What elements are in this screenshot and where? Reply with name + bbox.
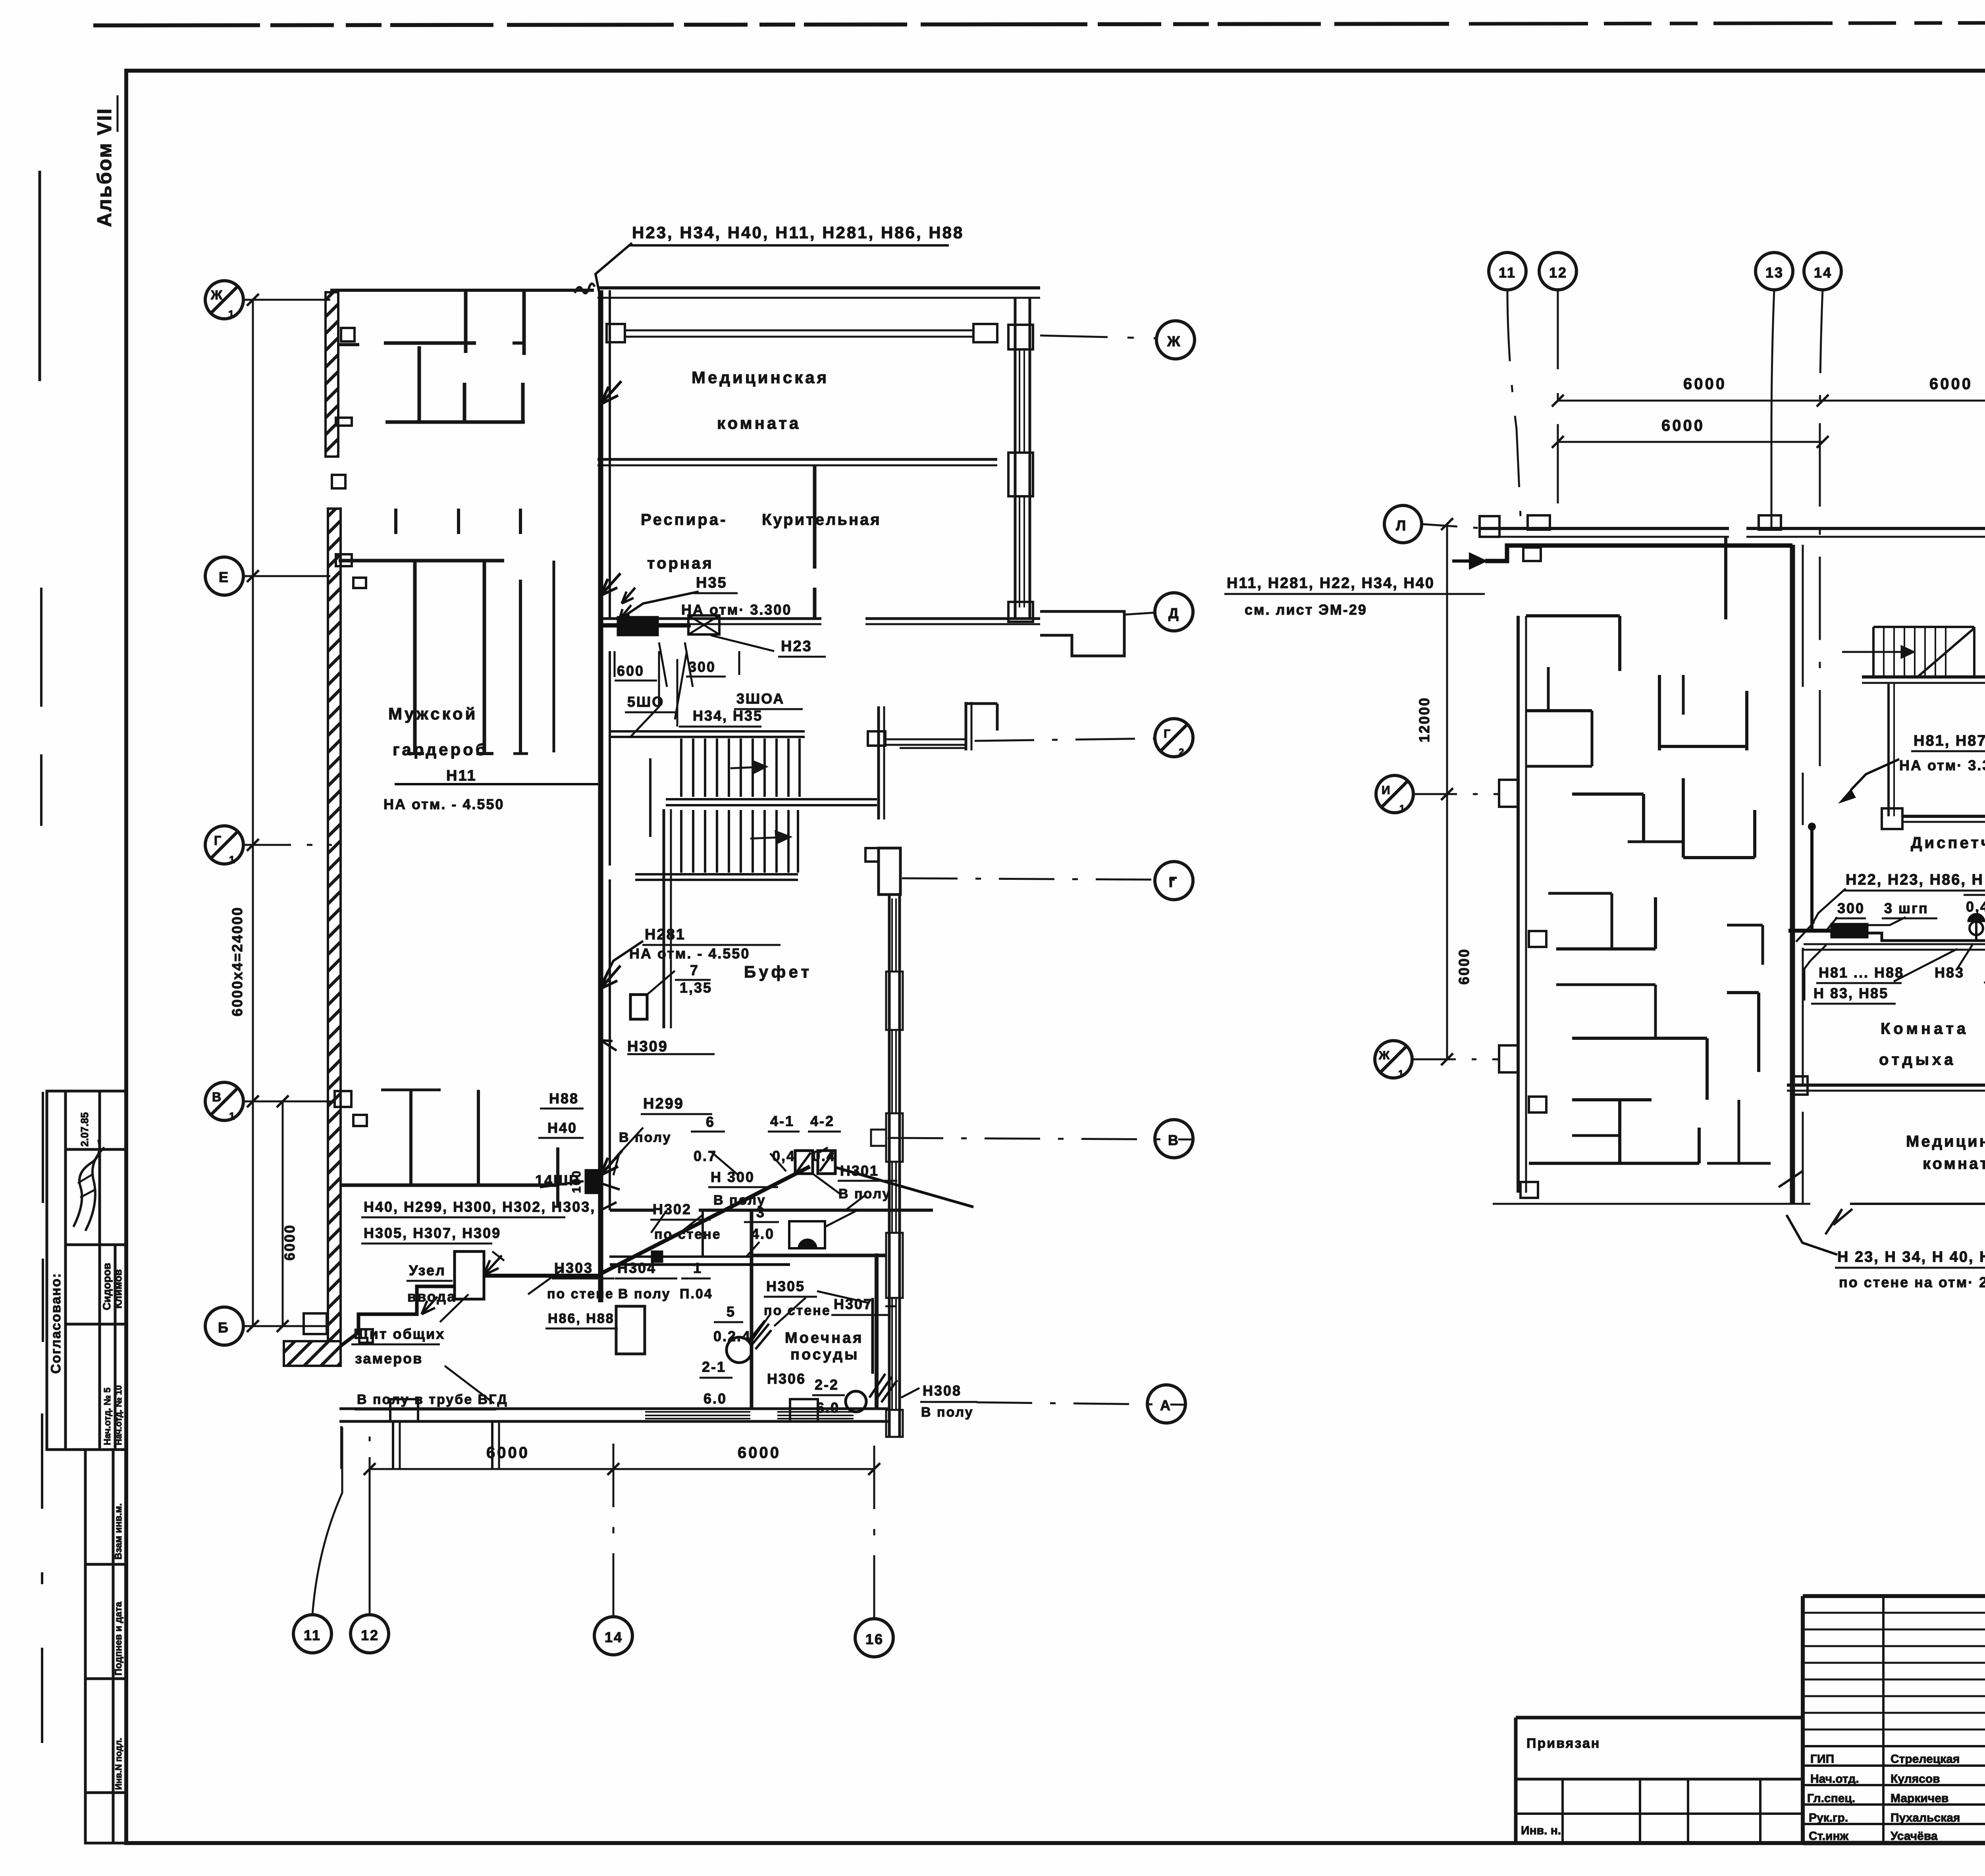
svg-text:Н 83, Н85: Н 83, Н85 [1813,985,1889,1001]
branch to shield boxes (D axis) [601,624,691,628]
left circles [1384,505,1422,543]
svg-text:Н22, Н23, Н86, Н 87, Н81: Н22, Н23, Н86, Н 87, Н81 [1846,871,1985,888]
top label leader [595,243,632,306]
svg-text:Нач.отд.: Нач.отд. [1810,1772,1859,1785]
svg-text:по стене: по стене [764,1303,831,1318]
svg-text:Н302: Н302 [653,1201,692,1217]
svg-text:0.2.4: 0.2.4 [713,1328,751,1344]
svg-text:Н35: Н35 [696,575,727,591]
svg-text:Ж: Ж [210,288,224,302]
svg-text:Стрелецкая: Стрелецкая [1891,1753,1960,1766]
svg-text:Ж: Ж [1378,1049,1391,1062]
rest room bottom wall (Zh axis) [1787,1084,1985,1087]
svg-text:Н301: Н301 [840,1163,879,1179]
bottom circles [293,1615,331,1653]
svg-text:Альбом VII: Альбом VII [93,108,116,227]
svg-text:Н281: Н281 [645,926,686,943]
svg-text:0.7: 0.7 [694,1148,717,1164]
side stamp (approval) [47,1091,126,1450]
svg-text:гардероб: гардероб [393,740,488,759]
svg-text:100: 100 [570,1170,583,1193]
svg-text:6000: 6000 [1456,948,1472,985]
wire along kitchen top wall [610,1263,790,1266]
svg-text:И: И [1382,784,1391,797]
svg-text:В полу: В полу [921,1405,974,1420]
svg-text:Н83: Н83 [1935,964,1964,981]
svg-text:Буфет: Буфет [744,962,812,981]
svg-text:0,4: 0,4 [1966,898,1985,915]
svg-text:Л: Л [1396,517,1407,534]
svg-text:Нач.отд. № 5: Нач.отд. № 5 [102,1388,112,1445]
top walls (K axis) [1480,527,1729,530]
svg-text:600: 600 [617,663,644,679]
bottom dim line [370,1468,874,1470]
mid-left partition block (B/1 area) [341,1184,558,1187]
svg-text:6000: 6000 [281,1224,298,1261]
svg-text:Б: Б [218,1319,229,1336]
right outer windowed wall of plan [879,848,900,895]
svg-text:11: 11 [1499,264,1516,281]
300 dim tick [1796,922,1814,942]
leader from label N22... to wire [1810,889,1846,927]
N35 leader [619,592,699,619]
leader N81/N87 with arrow [1851,759,1899,790]
top outer wall [330,289,594,292]
svg-text:НА отм. - 4.550: НА отм. - 4.550 [384,796,504,812]
svg-text:1: 1 [1399,803,1406,814]
svg-text:Щит общих: Щит общих [354,1326,445,1342]
svg-text:В полу в трубе ВГД: В полу в трубе ВГД [357,1392,508,1407]
small dim ticks under boxes [614,651,616,677]
left outer wall of left wing [1517,616,1520,1193]
svg-text:0,4: 0,4 [772,1148,796,1164]
svg-text:Привязан: Привязан [1526,1736,1600,1751]
left plan wires & devices [341,243,973,1412]
break squiggle on top wall [575,283,595,293]
svg-text:Гл.спец.: Гл.спец. [1807,1792,1855,1805]
svg-text:Взам инв.м.: Взам инв.м. [113,1503,124,1560]
svg-text:В: В [212,1090,222,1104]
right circles [1156,321,1195,359]
N11 underline leader to wall [395,783,601,785]
svg-text:13: 13 [1765,264,1784,281]
svg-text:6000: 6000 [1661,417,1705,434]
N307 wire along window wall in moechnaya [871,1298,874,1374]
med room bottom wall [597,458,997,461]
left wing interior labyrinth [1526,614,1620,617]
svg-text:Г: Г [1169,874,1178,890]
svg-text:Н88: Н88 [549,1090,579,1107]
svg-text:см. лист ЭМ-29: см. лист ЭМ-29 [1245,602,1367,618]
svg-text:Подпнев и дата: Подпнев и дата [113,1602,124,1675]
svg-text:1,35: 1,35 [680,979,712,996]
N281 leader [603,941,643,981]
shield wire to hatched wall [341,1286,455,1346]
G/2 landing walls [877,706,880,819]
svg-text:В полу: В полу [618,1286,671,1301]
svg-text:1: 1 [1398,1068,1405,1079]
svg-text:Кулясов: Кулясов [1891,1772,1940,1785]
svg-text:14: 14 [605,1629,623,1645]
svg-text:6: 6 [706,1114,715,1130]
svg-text:6000: 6000 [738,1444,781,1461]
main riser along corridor wall [598,290,603,1302]
svg-text:7: 7 [690,962,699,978]
svg-text:НА отм. - 4.550: НА отм. - 4.550 [629,945,750,962]
svg-text:11: 11 [304,1627,321,1643]
svg-text:Н308: Н308 [923,1382,962,1399]
svg-text:Н 23, Н 34, Н 40, Н 11, Н 2: Н 23, Н 34, Н 40, Н 11, Н 281, Н 86, Н 8… [1837,1249,1985,1265]
bottom outer wall with window strips [339,1407,889,1410]
svg-text:Н305: Н305 [766,1278,805,1294]
svg-text:В полу: В полу [619,1130,672,1145]
svg-text:В: В [1168,1132,1179,1148]
svg-text:4.0: 4.0 [751,1226,775,1242]
label leaders lamps [1957,945,1972,969]
right plan axes [1375,253,1985,1106]
svg-text:Курительная: Курительная [762,511,881,528]
svg-text:Д: Д [1168,605,1180,621]
svg-text:5: 5 [727,1303,736,1320]
svg-text:14: 14 [1814,264,1832,281]
wall under stair (I/2) [1862,675,1985,679]
svg-text:2-2: 2-2 [815,1377,839,1393]
signatures scribble [73,1139,104,1231]
svg-text:Рук.гр.: Рук.гр. [1809,1811,1848,1824]
svg-text:Н86, Н88: Н86, Н88 [548,1311,615,1326]
diagonal wire to 4-1/4-2 boxes [601,1166,810,1274]
svg-text:0.4: 0.4 [812,1148,836,1164]
svg-text:комната: комната [1923,1155,1985,1172]
svg-text:2: 2 [1179,747,1185,758]
svg-text:Н23: Н23 [781,638,812,655]
leaders under box N81..N88 [1810,945,1826,961]
svg-text:отдыха: отдыха [1879,1051,1956,1068]
svg-text:6000х4=24000: 6000х4=24000 [229,906,245,1016]
svg-text:Ж: Ж [1167,333,1181,349]
svg-text:1: 1 [229,854,236,866]
partition below lamps [1804,943,1985,945]
svg-text:Е: Е [219,569,229,585]
svg-text:Моечная: Моечная [785,1330,863,1346]
Zh axis beam across med room [624,330,973,332]
svg-text:Н81 ... Н88: Н81 ... Н88 [1819,964,1904,981]
circles sinks [727,1337,752,1363]
svg-text:Н 300: Н 300 [711,1169,755,1185]
leader for N299 [613,1128,643,1175]
svg-text:12000: 12000 [1416,697,1432,742]
svg-text:по стене на отм· 2.400: по стене на отм· 2.400 [1839,1274,1985,1290]
leaders bottom labels [651,1210,667,1233]
hatched exterior wall long segment [328,509,341,1348]
step ledge right of D axis [1040,611,1124,656]
svg-text:Н11: Н11 [446,767,477,784]
svg-text:4-2: 4-2 [810,1113,834,1129]
central column thin rows [1803,1612,1985,1614]
svg-text:1: 1 [693,1260,702,1276]
svg-text:300: 300 [688,659,716,675]
svg-text:замеров: замеров [355,1350,423,1367]
svg-text:Медицинская: Медицинская [692,368,829,387]
svg-text:Маркичев: Маркичев [1891,1792,1948,1805]
left paper fold marks [39,171,41,381]
svg-text:ввода: ввода [407,1288,456,1305]
svg-text:300: 300 [1837,900,1865,916]
middle corridor wall (with feeder run, drawn heavy) [1790,545,1795,1203]
lamps [1975,922,1977,941]
svg-text:Усачёва: Усачёва [1891,1830,1938,1843]
med room right / window wall of top block [1014,298,1017,619]
svg-text:Узел: Узел [409,1262,446,1278]
svg-text:Инв.N подл.: Инв.N подл. [114,1738,123,1790]
svg-text:12: 12 [1549,264,1567,281]
top-left room cluster partitions [464,290,468,353]
svg-text:НА отм· 3.300: НА отм· 3.300 [681,602,792,618]
svg-text:П.04: П.04 [680,1286,713,1301]
album text [93,95,118,227]
svg-text:Н40, Н299, Н300, Н302, Н303,: Н40, Н299, Н300, Н302, Н303, [364,1199,595,1215]
bottom rooms walls [610,1209,655,1212]
svg-text:Н303: Н303 [554,1260,593,1276]
svg-text:Климов: Климов [112,1269,124,1309]
svg-text:Г: Г [1164,727,1172,740]
svg-text:5ШО: 5ШО [627,694,664,710]
stair (right plan) [1873,626,1974,628]
svg-text:12: 12 [361,1627,379,1643]
paper top dashed trim line [93,24,1449,25]
corridor east wall below stairs [663,809,665,1028]
svg-text:Н304: Н304 [617,1260,656,1276]
svg-text:Н34, Н35: Н34, Н35 [693,708,763,724]
svg-text:Н40: Н40 [547,1120,577,1136]
svg-text:Респира-: Респира- [641,511,727,528]
svg-text:6000: 6000 [1683,375,1727,393]
left attached table [1516,1716,1803,1720]
svg-text:В полу: В полу [838,1186,891,1201]
sink with dome (item 3) [789,1221,825,1248]
TITLE BLOCK [1516,1596,1985,1843]
svg-text:посуды: посуды [790,1346,860,1363]
svg-text:комната: комната [717,414,801,432]
horizontal dims [1558,400,1985,402]
svg-text:Н23, Н34, Н40, Н11, Н281, Н: Н23, Н34, Н40, Н11, Н281, Н86, Н88 [632,223,964,242]
branch arrows on riser [601,381,621,404]
svg-text:Н305, Н307, Н309: Н305, Н307, Н309 [364,1225,501,1241]
side stamp lower strip [85,1450,126,1843]
svg-text:А: А [1160,1397,1172,1413]
vertical dim line [252,300,254,1326]
svg-text:6.0: 6.0 [816,1400,840,1416]
svg-text:Комната: Комната [1881,1020,1969,1037]
svg-text:2-1: 2-1 [702,1359,726,1375]
svg-text:Г: Г [214,833,222,848]
N309 tick [601,1183,620,1190]
svg-text:Пухальская: Пухальская [1891,1811,1960,1824]
corridor wall (main riser wall) [609,290,611,618]
wardrobe racks [394,509,397,534]
svg-text:Н81, Н87: Н81, Н87 [1914,733,1985,749]
svg-text:Н11, Н281, Н22, Н34, Н40: Н11, Н281, Н22, Н34, Н40 [1227,575,1435,592]
svg-text:1: 1 [228,308,235,320]
svg-text:6.0: 6.0 [703,1390,727,1407]
left plan axis circles / dims / leaders [205,281,1195,1657]
right plan wires [1452,546,1985,1255]
svg-text:Инв. н.: Инв. н. [1521,1824,1561,1837]
svg-text:Диспетчер: Диспетчер [1911,834,1985,852]
N23 leader from x-box [711,635,774,651]
hatched exterior wall upper segment [326,292,338,457]
svg-text:по стене: по стене [547,1286,614,1301]
device 7/1.35 [630,995,647,1019]
svg-text:16: 16 [865,1631,884,1647]
svg-text:торная: торная [647,555,714,572]
svg-text:3: 3 [756,1204,765,1220]
svg-text:6000: 6000 [486,1444,530,1461]
hatched bottom-left strip [284,1341,341,1366]
svg-text:ГИП: ГИП [1810,1753,1834,1766]
svg-text:Согласовано:: Согласовано: [48,1273,64,1374]
svg-text:4-1: 4-1 [770,1113,794,1129]
break mark bottom [1825,1209,1852,1234]
svg-text:Н306: Н306 [767,1371,806,1387]
wire continuing to N301 [835,1167,973,1207]
left plan texts [210,223,1185,1647]
kitchen horizontal wire + rosette [485,1274,601,1278]
bottom line of right plan [1493,1203,1810,1205]
dispatcher top wall (I axis) [1902,815,1985,818]
svg-text:Мужской: Мужской [388,704,478,723]
D-axis wall below resp rooms [600,617,821,620]
3shgp leader [1866,917,1906,925]
svg-text:3 шгп: 3 шгп [1884,900,1929,916]
svg-text:Н307: Н307 [834,1296,873,1312]
svg-text:2.07.85: 2.07.85 [79,1112,91,1147]
secondary dim 6000 B/1-B [282,1101,284,1326]
14ShR black box + 100 label bar [585,1169,599,1194]
svg-text:3ШОА: 3ШОА [736,690,784,707]
svg-text:Ст.инж: Ст.инж [1809,1830,1849,1843]
stairs [610,702,997,880]
svg-text:6000: 6000 [1929,375,1973,393]
svg-text:Н309: Н309 [627,1038,668,1055]
bottom label leader [1786,1215,1837,1255]
svg-text:Нач.отд. № 10: Нач.отд. № 10 [114,1385,123,1445]
svg-text:по стене: по стене [654,1227,721,1242]
svg-text:1: 1 [229,1110,236,1122]
svg-text:Сидоров: Сидоров [101,1263,113,1310]
svg-text:Медицинская: Медицинская [1906,1133,1985,1150]
svg-text:НА отм· 3.300: НА отм· 3.300 [1899,757,1985,773]
respiratory / smoking partition [813,465,817,569]
svg-text:Н299: Н299 [643,1095,684,1112]
right plan texts [1224,264,1985,1290]
